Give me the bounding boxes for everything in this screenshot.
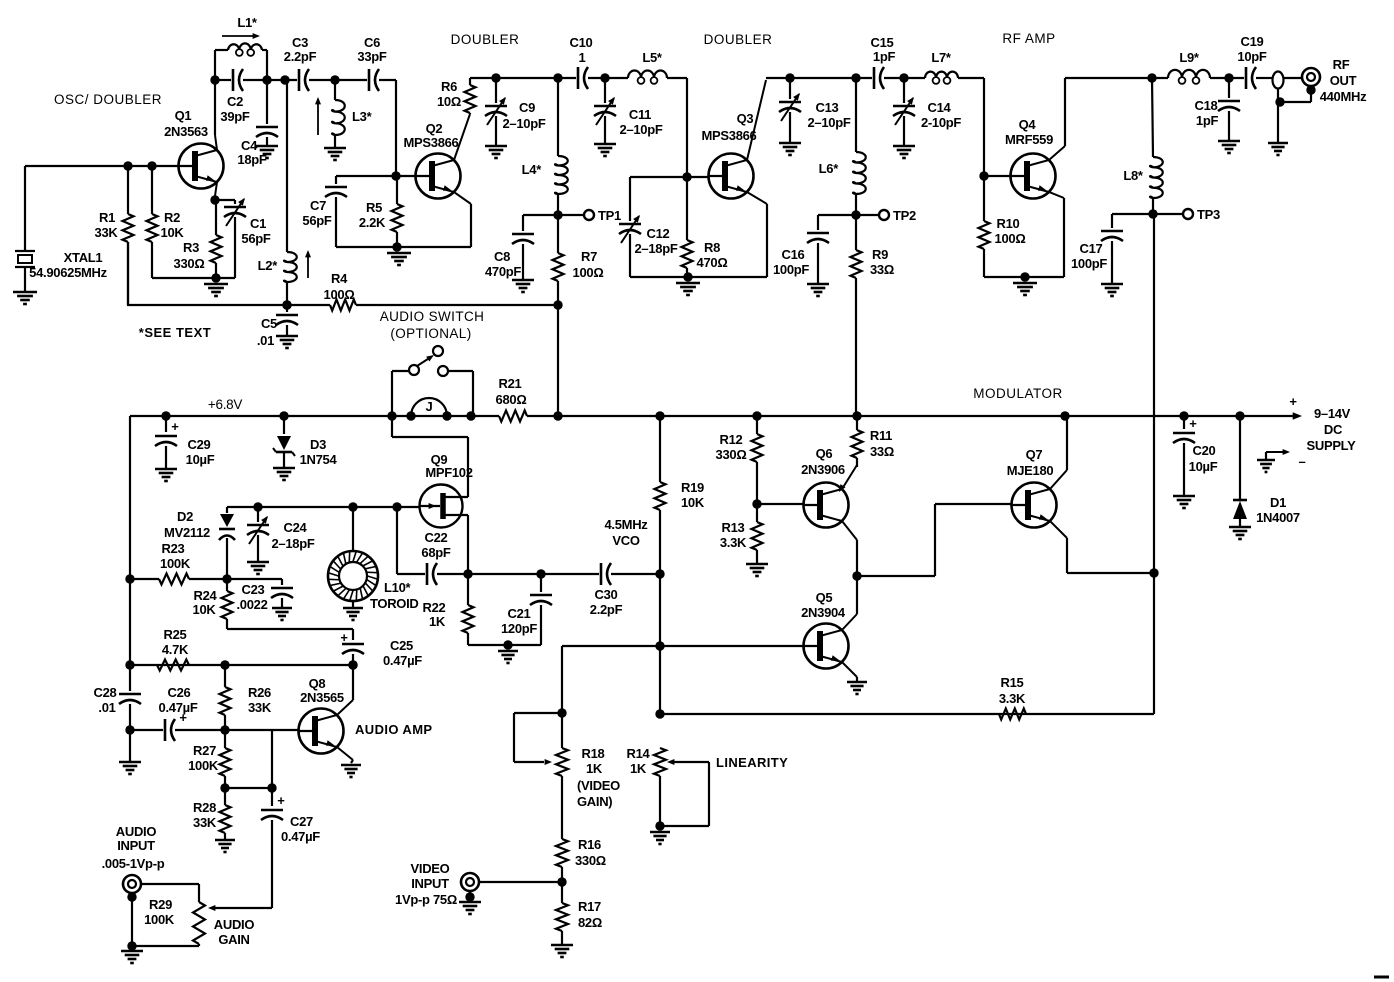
svg-text:R10: R10 — [997, 216, 1020, 231]
svg-text:SUPPLY: SUPPLY — [1306, 438, 1356, 453]
svg-text:MV2112: MV2112 — [164, 525, 210, 540]
svg-text:330Ω: 330Ω — [575, 853, 606, 868]
svg-text:C6: C6 — [364, 35, 380, 50]
svg-text:(OPTIONAL): (OPTIONAL) — [390, 326, 471, 341]
svg-text:L3*: L3* — [352, 109, 373, 124]
svg-text:330Ω: 330Ω — [174, 256, 205, 271]
svg-text:10µF: 10µF — [186, 452, 215, 467]
svg-text:+: + — [1189, 416, 1197, 431]
svg-text:3.3K: 3.3K — [999, 691, 1026, 706]
svg-text:33K: 33K — [95, 225, 119, 240]
svg-text:2N3906: 2N3906 — [801, 462, 845, 477]
svg-text:TOROID: TOROID — [370, 596, 419, 611]
svg-text:–: – — [1299, 454, 1306, 469]
svg-text:C24: C24 — [284, 520, 308, 535]
svg-text:10pF: 10pF — [1237, 49, 1267, 64]
svg-text:R12: R12 — [720, 432, 743, 447]
svg-text:2–10pF: 2–10pF — [502, 116, 545, 131]
svg-text:.005-1Vp-p: .005-1Vp-p — [102, 856, 165, 871]
svg-text:1K: 1K — [630, 761, 647, 776]
svg-text:R8: R8 — [704, 240, 720, 255]
svg-text:C25: C25 — [390, 638, 413, 653]
svg-text:MPS3866: MPS3866 — [404, 135, 459, 150]
svg-text:3.3K: 3.3K — [720, 535, 747, 550]
svg-text:100K: 100K — [144, 912, 175, 927]
svg-text:L8*: L8* — [1123, 168, 1144, 183]
svg-text:C19: C19 — [1241, 34, 1264, 49]
svg-text:AUDIO SWITCH: AUDIO SWITCH — [380, 309, 485, 324]
svg-text:DOUBLER: DOUBLER — [451, 32, 520, 47]
svg-text:R11: R11 — [870, 428, 892, 443]
svg-text:1pF: 1pF — [1196, 113, 1219, 128]
svg-text:10µF: 10µF — [1189, 459, 1218, 474]
svg-text:4.7K: 4.7K — [162, 642, 189, 657]
svg-text:C17: C17 — [1080, 241, 1103, 256]
svg-text:C13: C13 — [816, 100, 839, 115]
svg-text:L1*: L1* — [237, 15, 258, 30]
svg-text:R29: R29 — [149, 897, 172, 912]
svg-text:R7: R7 — [581, 249, 597, 264]
svg-text:9–14V: 9–14V — [1314, 406, 1351, 421]
svg-text:C16: C16 — [782, 247, 805, 262]
svg-text:OSC/ DOUBLER: OSC/ DOUBLER — [54, 92, 162, 107]
svg-text:OUT: OUT — [1330, 73, 1357, 88]
svg-text:+: + — [171, 419, 179, 434]
svg-text:C20: C20 — [1193, 443, 1216, 458]
svg-text:2N3904: 2N3904 — [801, 605, 846, 620]
svg-text:AUDIO: AUDIO — [116, 824, 157, 839]
svg-text:Q3: Q3 — [737, 111, 754, 126]
svg-text:MODULATOR: MODULATOR — [973, 386, 1063, 401]
svg-text:100Ω: 100Ω — [995, 231, 1026, 246]
svg-text:1pF: 1pF — [873, 49, 896, 64]
svg-text:C8: C8 — [494, 249, 510, 264]
svg-text:TP2: TP2 — [893, 208, 916, 223]
svg-text:INPUT: INPUT — [411, 876, 449, 891]
svg-text:(VIDEO: (VIDEO — [577, 778, 620, 793]
svg-text:680Ω: 680Ω — [496, 392, 527, 407]
svg-text:2-10pF: 2-10pF — [921, 115, 961, 130]
svg-text:R6: R6 — [441, 79, 457, 94]
svg-text:LINEARITY: LINEARITY — [716, 755, 788, 770]
svg-text:.0022: .0022 — [236, 597, 267, 612]
svg-text:L6*: L6* — [819, 161, 840, 176]
svg-text:C28: C28 — [94, 685, 117, 700]
svg-text:10K: 10K — [193, 602, 217, 617]
svg-text:R2: R2 — [164, 210, 180, 225]
svg-text:C30: C30 — [595, 587, 618, 602]
svg-text:Q8: Q8 — [309, 676, 326, 691]
svg-text:GAIN): GAIN) — [577, 794, 612, 809]
svg-text:330Ω: 330Ω — [716, 447, 747, 462]
svg-text:C4: C4 — [241, 138, 258, 153]
svg-text:C3: C3 — [292, 35, 308, 50]
svg-text:R18: R18 — [582, 746, 605, 761]
svg-text:R14: R14 — [627, 746, 651, 761]
svg-text:GAIN: GAIN — [218, 932, 249, 947]
svg-text:33pF: 33pF — [357, 49, 387, 64]
svg-text:C29: C29 — [188, 437, 211, 452]
svg-text:R25: R25 — [164, 627, 187, 642]
svg-text:R24: R24 — [194, 588, 218, 603]
svg-text:82Ω: 82Ω — [578, 915, 602, 930]
svg-text:C26: C26 — [168, 685, 191, 700]
svg-text:100pF: 100pF — [1071, 256, 1107, 271]
svg-text:L7*: L7* — [931, 50, 952, 65]
svg-text:100K: 100K — [160, 556, 191, 571]
svg-text:100K: 100K — [188, 758, 219, 773]
svg-text:56pF: 56pF — [241, 231, 271, 246]
svg-text:0.47µF: 0.47µF — [159, 700, 198, 715]
svg-text:+6.8V: +6.8V — [208, 397, 242, 412]
svg-text:10K: 10K — [681, 495, 705, 510]
svg-text:C7: C7 — [310, 198, 326, 213]
svg-text:R27: R27 — [193, 743, 216, 758]
svg-text:L9*: L9* — [1179, 50, 1200, 65]
svg-text:54.90625MHz: 54.90625MHz — [29, 265, 107, 280]
svg-text:AUDIO: AUDIO — [214, 917, 255, 932]
svg-text:33Ω: 33Ω — [870, 444, 894, 459]
svg-text:+: + — [277, 793, 285, 808]
svg-text:0.47µF: 0.47µF — [383, 653, 422, 668]
svg-text:2–10pF: 2–10pF — [619, 122, 662, 137]
svg-text:MPF102: MPF102 — [425, 465, 472, 480]
svg-text:L4*: L4* — [522, 162, 543, 177]
svg-text:L5*: L5* — [642, 50, 663, 65]
svg-text:VCO: VCO — [612, 533, 639, 548]
svg-text:C14: C14 — [928, 100, 952, 115]
svg-text:1N4007: 1N4007 — [1256, 510, 1300, 525]
svg-text:10K: 10K — [161, 225, 185, 240]
svg-text:.01: .01 — [257, 333, 274, 348]
svg-text:2.2pF: 2.2pF — [590, 602, 623, 617]
svg-text:4.5MHz: 4.5MHz — [605, 517, 649, 532]
svg-text:L10*: L10* — [384, 580, 412, 595]
svg-text:R28: R28 — [193, 800, 216, 815]
svg-text:TP1: TP1 — [598, 208, 621, 223]
svg-text:2–18pF: 2–18pF — [634, 241, 677, 256]
svg-text:2.2K: 2.2K — [359, 215, 386, 230]
svg-text:1K: 1K — [429, 614, 446, 629]
svg-text:120pF: 120pF — [501, 621, 537, 636]
svg-text:2.2pF: 2.2pF — [284, 49, 317, 64]
svg-text:C23: C23 — [242, 582, 265, 597]
svg-text:440MHz: 440MHz — [1320, 89, 1367, 104]
svg-text:DC: DC — [1324, 422, 1343, 437]
svg-text:33K: 33K — [248, 700, 272, 715]
svg-text:R16: R16 — [578, 837, 601, 852]
svg-text:C2: C2 — [227, 94, 243, 109]
svg-text:R1: R1 — [99, 210, 115, 225]
svg-text:R9: R9 — [872, 247, 888, 262]
svg-text:Q7: Q7 — [1026, 447, 1043, 462]
svg-text:R23: R23 — [162, 541, 185, 556]
svg-text:.01: .01 — [98, 700, 115, 715]
svg-text:MJE180: MJE180 — [1007, 463, 1054, 478]
svg-text:R4: R4 — [331, 271, 348, 286]
svg-text:R3: R3 — [183, 240, 199, 255]
svg-text:1K: 1K — [586, 761, 603, 776]
svg-text:R22: R22 — [423, 600, 446, 615]
svg-text:R15: R15 — [1001, 675, 1024, 690]
svg-text:470Ω: 470Ω — [697, 255, 728, 270]
svg-text:C22: C22 — [425, 530, 448, 545]
svg-text:10Ω: 10Ω — [437, 94, 461, 109]
svg-text:D3: D3 — [310, 437, 326, 452]
svg-text:C15: C15 — [871, 35, 894, 50]
svg-text:R19: R19 — [681, 480, 704, 495]
svg-text:Q1: Q1 — [175, 108, 192, 123]
svg-text:33K: 33K — [193, 815, 217, 830]
svg-text:2N3563: 2N3563 — [164, 124, 208, 139]
svg-text:Q6: Q6 — [816, 446, 833, 461]
svg-text:Q2: Q2 — [426, 121, 443, 136]
svg-text:C12: C12 — [647, 226, 670, 241]
svg-text:C11: C11 — [629, 107, 651, 122]
svg-text:68pF: 68pF — [421, 545, 451, 560]
svg-text:33Ω: 33Ω — [870, 262, 894, 277]
svg-text:1: 1 — [579, 50, 586, 65]
svg-text:C27: C27 — [290, 814, 313, 829]
svg-text:470pF: 470pF — [485, 264, 521, 279]
svg-text:Q4: Q4 — [1019, 117, 1037, 132]
svg-text:RF AMP: RF AMP — [1002, 31, 1055, 46]
svg-text:R17: R17 — [578, 899, 601, 914]
svg-text:D1: D1 — [1270, 495, 1286, 510]
svg-text:TP3: TP3 — [1197, 207, 1220, 222]
svg-text:+: + — [340, 630, 348, 645]
svg-text:R21: R21 — [499, 376, 522, 391]
svg-text:100Ω: 100Ω — [324, 287, 355, 302]
svg-text:1Vp-p 75Ω: 1Vp-p 75Ω — [395, 892, 457, 907]
svg-text:C21: C21 — [508, 606, 531, 621]
svg-text:2–10pF: 2–10pF — [807, 115, 850, 130]
svg-text:Q5: Q5 — [816, 590, 833, 605]
svg-text:C1: C1 — [250, 216, 266, 231]
svg-text:1N754: 1N754 — [300, 452, 338, 467]
svg-text:MPS3866: MPS3866 — [702, 128, 757, 143]
svg-text:VIDEO: VIDEO — [411, 861, 450, 876]
svg-text:C9: C9 — [519, 100, 535, 115]
svg-text:2–18pF: 2–18pF — [271, 536, 314, 551]
svg-text:2N3565: 2N3565 — [300, 690, 344, 705]
svg-text:XTAL1: XTAL1 — [64, 250, 103, 265]
svg-text:56pF: 56pF — [302, 213, 332, 228]
svg-text:*SEE TEXT: *SEE TEXT — [139, 325, 211, 340]
svg-text:R5: R5 — [366, 200, 382, 215]
svg-text:C5: C5 — [261, 316, 277, 331]
svg-text:J: J — [426, 399, 433, 414]
svg-text:100pF: 100pF — [773, 262, 809, 277]
svg-text:0.47µF: 0.47µF — [281, 829, 320, 844]
svg-text:AUDIO AMP: AUDIO AMP — [355, 722, 433, 737]
svg-text:RF: RF — [1333, 57, 1350, 72]
svg-text:MRF559: MRF559 — [1005, 132, 1053, 147]
svg-text:39pF: 39pF — [220, 109, 250, 124]
svg-text:C10: C10 — [570, 35, 593, 50]
svg-text:INPUT: INPUT — [117, 838, 155, 853]
svg-text:18pF: 18pF — [237, 152, 267, 167]
svg-text:R26: R26 — [248, 685, 271, 700]
svg-text:L2*: L2* — [258, 258, 279, 273]
svg-text:C18: C18 — [1195, 98, 1218, 113]
svg-text:DOUBLER: DOUBLER — [704, 32, 773, 47]
svg-text:100Ω: 100Ω — [573, 265, 604, 280]
svg-text:D2: D2 — [177, 509, 193, 524]
svg-text:+: + — [1289, 394, 1297, 409]
svg-text:R13: R13 — [722, 520, 745, 535]
